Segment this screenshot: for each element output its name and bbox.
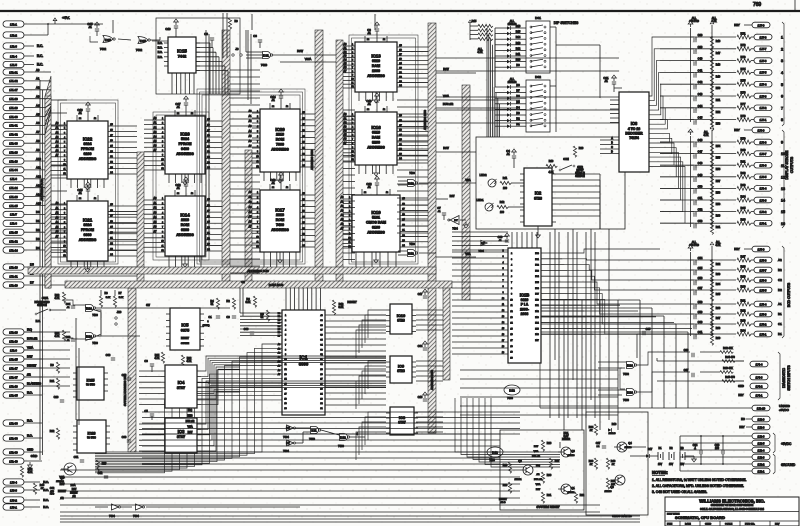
- resistor R33: [55, 292, 66, 303]
- wire IC15 outputs fan: [196, 43, 228, 94]
- svg-text:J9: J9: [235, 47, 239, 51]
- wire from 1J3-3: [24, 488, 49, 492]
- ground below IC19: [374, 252, 379, 263]
- svg-text:A10: A10: [36, 157, 41, 161]
- wire BUS Ø2 from 1J1-19: [24, 336, 42, 341]
- svg-text:FPROM: FPROM: [81, 147, 94, 151]
- svg-text:R/W: R/W: [450, 195, 455, 198]
- connector 1J1-34: [3, 167, 24, 173]
- connector 1J5-3: [754, 311, 772, 317]
- svg-text:6: 6: [781, 95, 783, 99]
- connector 1J1-5: [3, 61, 43, 67]
- svg-text:VMA: VMA: [27, 345, 33, 349]
- svg-text:1000: 1000: [372, 69, 380, 73]
- svg-text:ADDRESS: ADDRESS: [367, 231, 385, 235]
- svg-text:N.C.: N.C.: [27, 433, 33, 437]
- svg-text:16: 16: [781, 222, 785, 226]
- wire IC14 top pins: [175, 190, 195, 196]
- svg-text:SCALE: SCALE: [725, 523, 733, 526]
- svg-text:Q3: Q3: [571, 449, 575, 453]
- svg-text:15V: 15V: [669, 464, 674, 466]
- svg-text:IC4: IC4: [178, 380, 185, 385]
- led LED1: [477, 198, 525, 214]
- connector 1J1-4: [3, 53, 43, 59]
- connector 1J4-2: [738, 383, 768, 389]
- svg-text:BUS Ø2: BUS Ø2: [443, 102, 454, 106]
- label keying row 1J7-9: [734, 22, 770, 28]
- switch SW2: [559, 158, 585, 178]
- connector 1J1-23: [3, 149, 24, 155]
- connector 1J1-40: [3, 458, 24, 464]
- capacitor C40: [660, 55, 754, 72]
- wire A6 from 1J1-31: [24, 121, 45, 125]
- wire memory column C loops: [197, 89, 305, 264]
- svg-text:SW1: SW1: [42, 296, 49, 300]
- svg-text:1J1-13: 1J1-13: [9, 159, 18, 163]
- wire D3 from 1J1-12: [24, 237, 137, 241]
- svg-text:B2: B2: [778, 268, 782, 272]
- wire IC21 left pins: [51, 202, 67, 257]
- svg-text:C1: C1: [208, 315, 212, 319]
- buffer IC8 8T97: [386, 407, 418, 435]
- svg-text:7408: 7408: [409, 243, 415, 246]
- svg-text:1J6-2: 1J6-2: [760, 210, 767, 214]
- connector 1J6-5: [754, 174, 772, 180]
- transistor Q3: [558, 447, 575, 457]
- svg-text:1J1-26: 1J1-26: [9, 195, 18, 199]
- svg-text:R46: R46: [716, 40, 721, 43]
- svg-text:7404: 7404: [283, 435, 289, 439]
- svg-text:D: D: [611, 151, 613, 154]
- buffer IC4 8T97: [161, 365, 201, 408]
- svg-text:5.1K: 5.1K: [119, 297, 124, 299]
- wire IC6 output fan: [649, 37, 685, 223]
- svg-text:C18: C18: [418, 395, 423, 399]
- bus vertical V3b: [245, 150, 252, 287]
- svg-text:IC24: IC24: [627, 364, 633, 368]
- svg-text:D1: D1: [778, 332, 782, 336]
- svg-text:IC1B: IC1B: [520, 292, 530, 297]
- wire IC21 top pins: [77, 195, 98, 201]
- connector 1J5-4: [754, 301, 772, 307]
- svg-text:1J7-6: 1J7-6: [760, 59, 767, 63]
- svg-text:1J1-3: 1J1-3: [10, 44, 17, 48]
- capacitor C21: [603, 75, 622, 92]
- svg-text:1J1-5: 1J1-5: [10, 63, 17, 67]
- connector 1J1-3: [3, 43, 43, 49]
- svg-text:+5V.: +5V.: [62, 15, 70, 20]
- svg-text:R24: R24: [589, 426, 594, 429]
- svg-text:1J5-9: 1J5-9: [758, 247, 765, 251]
- svg-text:C60: C60: [698, 320, 703, 324]
- svg-text:2N4403: 2N4403: [604, 491, 612, 493]
- svg-text:CHKD: CHKD: [705, 524, 712, 526]
- svg-text:PA3: PA3: [535, 316, 538, 319]
- connector 1J6-8: [754, 139, 772, 145]
- wire battery row: [630, 447, 658, 456]
- wire VMA RW mid runs: [419, 179, 476, 257]
- wire IC22 data drops: [71, 179, 104, 188]
- svg-text:R73: R73: [741, 55, 746, 59]
- capacitor C67: [175, 96, 188, 116]
- svg-text:A6: A6: [36, 121, 40, 125]
- capacitor C4: [506, 149, 516, 168]
- capacitor C28: [54, 395, 65, 402]
- svg-text:R48: R48: [716, 64, 721, 67]
- connector 1J6-6: [754, 162, 772, 168]
- ground below IC22: [85, 179, 90, 190]
- svg-text:N.C.: N.C.: [37, 63, 43, 67]
- wire IRQ from 1J1-23: [24, 327, 42, 332]
- connector 1J2-8: [739, 424, 770, 430]
- svg-text:R52: R52: [716, 111, 721, 114]
- jumper J10: [115, 310, 122, 325]
- capacitor C38: [660, 31, 754, 48]
- svg-text:C40: C40: [698, 57, 703, 61]
- svg-text:1J2-4: 1J2-4: [758, 448, 765, 452]
- resistor R3 top: [228, 18, 238, 29]
- svg-text:1J6-8: 1J6-8: [760, 140, 767, 144]
- svg-text:N.C.: N.C.: [158, 56, 163, 59]
- connector 1J1-29: [3, 105, 24, 111]
- svg-text:R39: R39: [589, 460, 594, 463]
- ground below IC16: [374, 165, 379, 176]
- connector 1J1-22: [3, 78, 24, 84]
- wire IC14 right pins: [205, 199, 222, 251]
- bus ADDRESS BUS horizontal: [28, 267, 436, 274]
- gate IC25a 7402: [100, 36, 115, 52]
- wire IC20 top pins: [270, 103, 290, 109]
- svg-text:R75: R75: [741, 79, 746, 83]
- svg-text:VMA: VMA: [534, 450, 539, 453]
- resistor R21: [50, 378, 60, 389]
- wire bcd common rail: [710, 241, 721, 336]
- svg-text:LED1: LED1: [477, 198, 484, 202]
- capacitor C50: [660, 183, 754, 200]
- svg-text:R43 47K: R43 47K: [723, 367, 733, 370]
- wire memory column A loops: [58, 100, 118, 264]
- svg-text:N.C.: N.C.: [36, 320, 41, 323]
- svg-text:R/W: R/W: [443, 146, 449, 150]
- bus DATA BUS vertical V5: [336, 40, 343, 287]
- capacitor C58: [660, 298, 754, 315]
- wire IC13 top pins: [365, 36, 387, 42]
- svg-text:7442: 7442: [178, 55, 186, 59]
- connector 1J1-35: [3, 392, 24, 398]
- svg-text:1J4-2: 1J4-2: [756, 384, 763, 388]
- svg-text:R84: R84: [741, 194, 746, 198]
- svg-text:C35: C35: [646, 327, 651, 331]
- capacitor C13: [270, 172, 283, 190]
- svg-text:Ø2: Ø2: [27, 372, 31, 376]
- svg-text:Q1: Q1: [571, 486, 575, 490]
- svg-text:1J1-21: 1J1-21: [9, 70, 18, 74]
- wire A9 from 1J1-23: [24, 148, 45, 152]
- svg-text:IC10: IC10: [397, 313, 406, 318]
- gate IC24d 7400: [86, 333, 99, 346]
- svg-text:GND: GND: [738, 384, 744, 388]
- svg-text:R57: R57: [716, 180, 721, 183]
- connector 1J1-12: [3, 238, 24, 244]
- gate IC12d 7408 mid: [398, 172, 418, 187]
- svg-text:R72: R72: [741, 43, 746, 47]
- svg-text:PB5: PB5: [535, 282, 539, 284]
- svg-text:100: 100: [503, 187, 508, 190]
- svg-text:1J1-40: 1J1-40: [9, 459, 18, 463]
- svg-text:Q2: Q2: [518, 459, 522, 463]
- svg-text:DATE: DATE: [685, 523, 691, 526]
- svg-text:PA5: PA5: [535, 327, 538, 330]
- svg-text:NOTES:: NOTES:: [652, 470, 668, 475]
- connector 1J4-3: [750, 374, 768, 380]
- wire 7400 outputs right: [96, 290, 230, 336]
- svg-text:4.7K: 4.7K: [477, 50, 483, 54]
- svg-text:7408: 7408: [409, 172, 415, 175]
- wire sw1 to gates: [50, 300, 101, 341]
- svg-text:R94: R94: [741, 328, 746, 332]
- memory IC22: [67, 121, 108, 179]
- svg-text:1J1-25: 1J1-25: [9, 204, 18, 208]
- wire A11 from 1J1-34: [24, 166, 45, 170]
- svg-text:7404: 7404: [283, 449, 289, 453]
- svg-text:PFD: PFD: [50, 494, 55, 496]
- svg-text:IC11: IC11: [263, 54, 269, 58]
- svg-text:1J7-1: 1J7-1: [760, 118, 767, 122]
- capacitor C24: [693, 443, 702, 454]
- svg-text:VMA: VMA: [465, 179, 471, 182]
- reset enclosure: [500, 430, 584, 510]
- svg-text:1J1-2: 1J1-2: [10, 33, 17, 37]
- wire IC4 IC3 right staircase: [201, 356, 240, 451]
- svg-text:IC16: IC16: [371, 125, 381, 130]
- svg-text:ROM: ROM: [276, 138, 284, 142]
- svg-text:C50: C50: [698, 184, 703, 188]
- svg-text:D12: D12: [516, 47, 521, 50]
- svg-text:3.3K: 3.3K: [339, 306, 344, 309]
- wire bus stubs v4v5: [343, 110, 355, 260]
- svg-text:1J3-1: 1J3-1: [10, 505, 17, 509]
- svg-text:DIP SWITCHES: DIP SWITCHES: [554, 21, 579, 25]
- ground GND label bottom left: [28, 454, 39, 468]
- svg-text:7400: 7400: [92, 342, 98, 345]
- svg-text:D4: D4: [36, 246, 40, 250]
- wire N.C. from 1J1-36: [24, 418, 42, 423]
- wire +5V feed: [24, 18, 55, 35]
- capacitor C12: [175, 177, 188, 196]
- svg-text:2316: 2316: [181, 218, 189, 222]
- buffer IC10 8T28: [386, 304, 416, 334]
- svg-text:PB7: PB7: [535, 294, 539, 296]
- svg-text:2316: 2316: [276, 133, 284, 137]
- svg-text:ADDRESS: ADDRESS: [176, 233, 194, 237]
- bus vertical V8: [462, 85, 470, 300]
- svg-text:6200: 6200: [84, 152, 92, 156]
- resistor R23: [96, 460, 106, 471]
- svg-text:R85: R85: [741, 206, 746, 210]
- capacitor C53: [660, 218, 754, 235]
- wire gates to timers verticals: [76, 318, 79, 425]
- svg-text:6810: 6810: [372, 131, 380, 135]
- svg-text:7404: 7404: [478, 250, 484, 253]
- wire gate output to IC15: [152, 40, 168, 42]
- svg-text:1J2-2: 1J2-2: [758, 462, 765, 466]
- capacitor C47: [660, 148, 754, 165]
- svg-text:N.C.: N.C.: [37, 44, 43, 48]
- svg-text:RESET: RESET: [347, 300, 357, 304]
- svg-text:2: 2: [781, 47, 783, 51]
- connector 1J2-1: [752, 468, 770, 474]
- capacitor C37: [680, 368, 694, 377]
- svg-text:PA6: PA6: [535, 333, 538, 336]
- svg-text:C58: C58: [698, 300, 703, 304]
- svg-text:1J1-35: 1J1-35: [9, 393, 18, 397]
- svg-text:VMA: VMA: [187, 426, 193, 429]
- svg-text:A2: A2: [36, 86, 40, 90]
- connector 1J1-30: [3, 113, 24, 119]
- wire PIA to BCD staircase: [560, 249, 660, 334]
- ground below IC26: [183, 174, 188, 185]
- svg-text:1. ALL RESISTORS, ¼ WATT UNLES: 1. ALL RESISTORS, ¼ WATT UNLESS NOTED OT…: [652, 478, 747, 482]
- svg-text:C48: C48: [698, 161, 703, 165]
- svg-text:4 TO 16: 4 TO 16: [628, 127, 640, 131]
- svg-text:A9: A9: [36, 148, 40, 152]
- svg-text:1J1-34: 1J1-34: [9, 168, 18, 172]
- connector 1J5-2: [754, 321, 772, 327]
- svg-text:8T97: 8T97: [177, 435, 185, 439]
- connector 1J1-28: [3, 96, 24, 102]
- svg-text:7400: 7400: [623, 372, 629, 376]
- wire IC14 data drops: [169, 256, 201, 267]
- connector 1J6-2: [754, 209, 772, 215]
- wire D1 from 1J1-8: [24, 219, 137, 223]
- svg-text:1J5-8: 1J5-8: [760, 258, 767, 262]
- wire IC26 left pins: [144, 117, 165, 170]
- connector 1J1-25: [3, 356, 24, 362]
- svg-text:PA4: PA4: [535, 322, 538, 325]
- wire PIA left bundle: [452, 250, 508, 354]
- switch DS2: [526, 75, 550, 132]
- connector 1J5-8: [754, 257, 772, 263]
- wire A14 from 1J1-26: [24, 192, 45, 196]
- wire display strobe bracket: [782, 22, 784, 228]
- gate IC7b 7404 inverter: [283, 440, 295, 453]
- parts cluster R4 R2 C3 C2 C1: [202, 280, 245, 327]
- connector 1J3-4: [3, 479, 24, 485]
- wire A3 from 1J1-28: [24, 95, 45, 99]
- wire from 1J3-1: [24, 505, 49, 509]
- svg-text:C44: C44: [698, 104, 703, 108]
- wire IC17 data drops: [264, 252, 296, 267]
- svg-text:6875: 6875: [181, 329, 189, 333]
- connector 1J1-17: [3, 365, 24, 371]
- wire mid long control lines: [142, 409, 520, 434]
- wire IC19 left pins: [341, 196, 352, 248]
- svg-text:IC12: IC12: [340, 436, 346, 440]
- svg-text:SWITCH: SWITCH: [575, 175, 585, 178]
- svg-text:N.C.: N.C.: [158, 47, 163, 50]
- wire cap common rail 2: [688, 129, 693, 227]
- svg-text:1J1-14: 1J1-14: [9, 248, 18, 252]
- connector 1J2-2: [752, 461, 770, 467]
- svg-text:0100: 0100: [372, 226, 380, 230]
- svg-text:C57: C57: [698, 286, 703, 290]
- connector 1J5-1: [754, 331, 772, 337]
- svg-text:C43: C43: [698, 92, 703, 96]
- svg-text:PA2: PA2: [535, 310, 538, 313]
- svg-text:COM: COM: [563, 158, 569, 161]
- svg-text:R82: R82: [741, 171, 746, 175]
- svg-text:3.3K: 3.3K: [246, 301, 251, 304]
- svg-text:1J1-1: 1J1-1: [10, 22, 17, 26]
- resistor R42: [700, 347, 733, 353]
- svg-text:N.C.: N.C.: [43, 480, 49, 484]
- svg-text:SYSTEM RESET: SYSTEM RESET: [536, 505, 559, 509]
- wire IC15 routing box: [156, 18, 240, 94]
- wire IC20 right pins: [300, 112, 315, 167]
- svg-text:1J4-1: 1J4-1: [756, 393, 763, 397]
- transistor Q6: [604, 475, 625, 493]
- wire IC10 IC9 IC8 left staircases: [356, 310, 386, 460]
- capacitor C62: [50, 487, 62, 496]
- svg-text:1J7-4: 1J7-4: [760, 82, 767, 86]
- svg-text:SUBSIDIARY OF XCOR CORPORATION: SUBSIDIARY OF XCOR CORPORATION: [711, 504, 754, 507]
- svg-text:R32: R32: [580, 494, 585, 497]
- connector 1J1-8: [3, 220, 24, 226]
- connector 1J1-16: [3, 264, 24, 270]
- resistor R31: [541, 492, 551, 503]
- wire IC13 left pins: [343, 43, 355, 88]
- svg-text:C: C: [611, 146, 613, 149]
- regulator IC5 6875: [166, 308, 204, 350]
- connector 1J1-25: [3, 202, 24, 208]
- bus ADDRESS BUS right vertical V6: [423, 23, 436, 433]
- svg-text:RAM: RAM: [372, 136, 380, 140]
- ground below IC17: [278, 252, 283, 263]
- svg-text:C1: C1: [778, 322, 782, 326]
- svg-text:KEY: KEY: [734, 128, 740, 132]
- wire RESET from 1J1-17: [24, 363, 42, 368]
- wire N.C. from 1J1-35: [24, 390, 42, 395]
- svg-text:D0: D0: [36, 210, 40, 214]
- wire Ø2 from 1J1-37: [24, 372, 42, 377]
- capacitor C29: [122, 373, 132, 380]
- svg-text:½ 556: ½ 556: [86, 383, 95, 387]
- svg-text:R19: R19: [549, 160, 554, 163]
- capacitor C55: [660, 264, 754, 281]
- svg-text:R49: R49: [40, 484, 45, 487]
- svg-text:R/W: R/W: [27, 354, 33, 358]
- bus wedge address fan: [45, 76, 51, 288]
- capacitor C16: [77, 102, 90, 121]
- jumper J9: [232, 47, 242, 56]
- svg-text:ADDRESS: ADDRESS: [271, 148, 289, 152]
- label GROUND brace: [773, 454, 796, 474]
- svg-text:BCD OUTPUTS: BCD OUTPUTS: [787, 282, 791, 307]
- svg-text:4.7K: 4.7K: [716, 244, 721, 247]
- svg-text:2N4401: 2N4401: [514, 479, 522, 481]
- wire IC3 left bundle: [139, 424, 161, 451]
- svg-text:1J5-4: 1J5-4: [760, 302, 767, 306]
- svg-text:RESET: RESET: [181, 337, 190, 340]
- resistor R24: [589, 424, 598, 435]
- svg-text:R11: R11: [503, 177, 508, 180]
- svg-text:C19: C19: [165, 27, 171, 31]
- svg-text:A0: A0: [36, 68, 40, 72]
- svg-text:Ø2·B: Ø2·B: [500, 502, 506, 504]
- wire from 1J3-2: [24, 498, 49, 502]
- bus SYSTEM ADDRESS BUS vertical: [123, 288, 136, 452]
- svg-text:SCHEMATIC, CPU BOARD: SCHEMATIC, CPU BOARD: [675, 515, 725, 520]
